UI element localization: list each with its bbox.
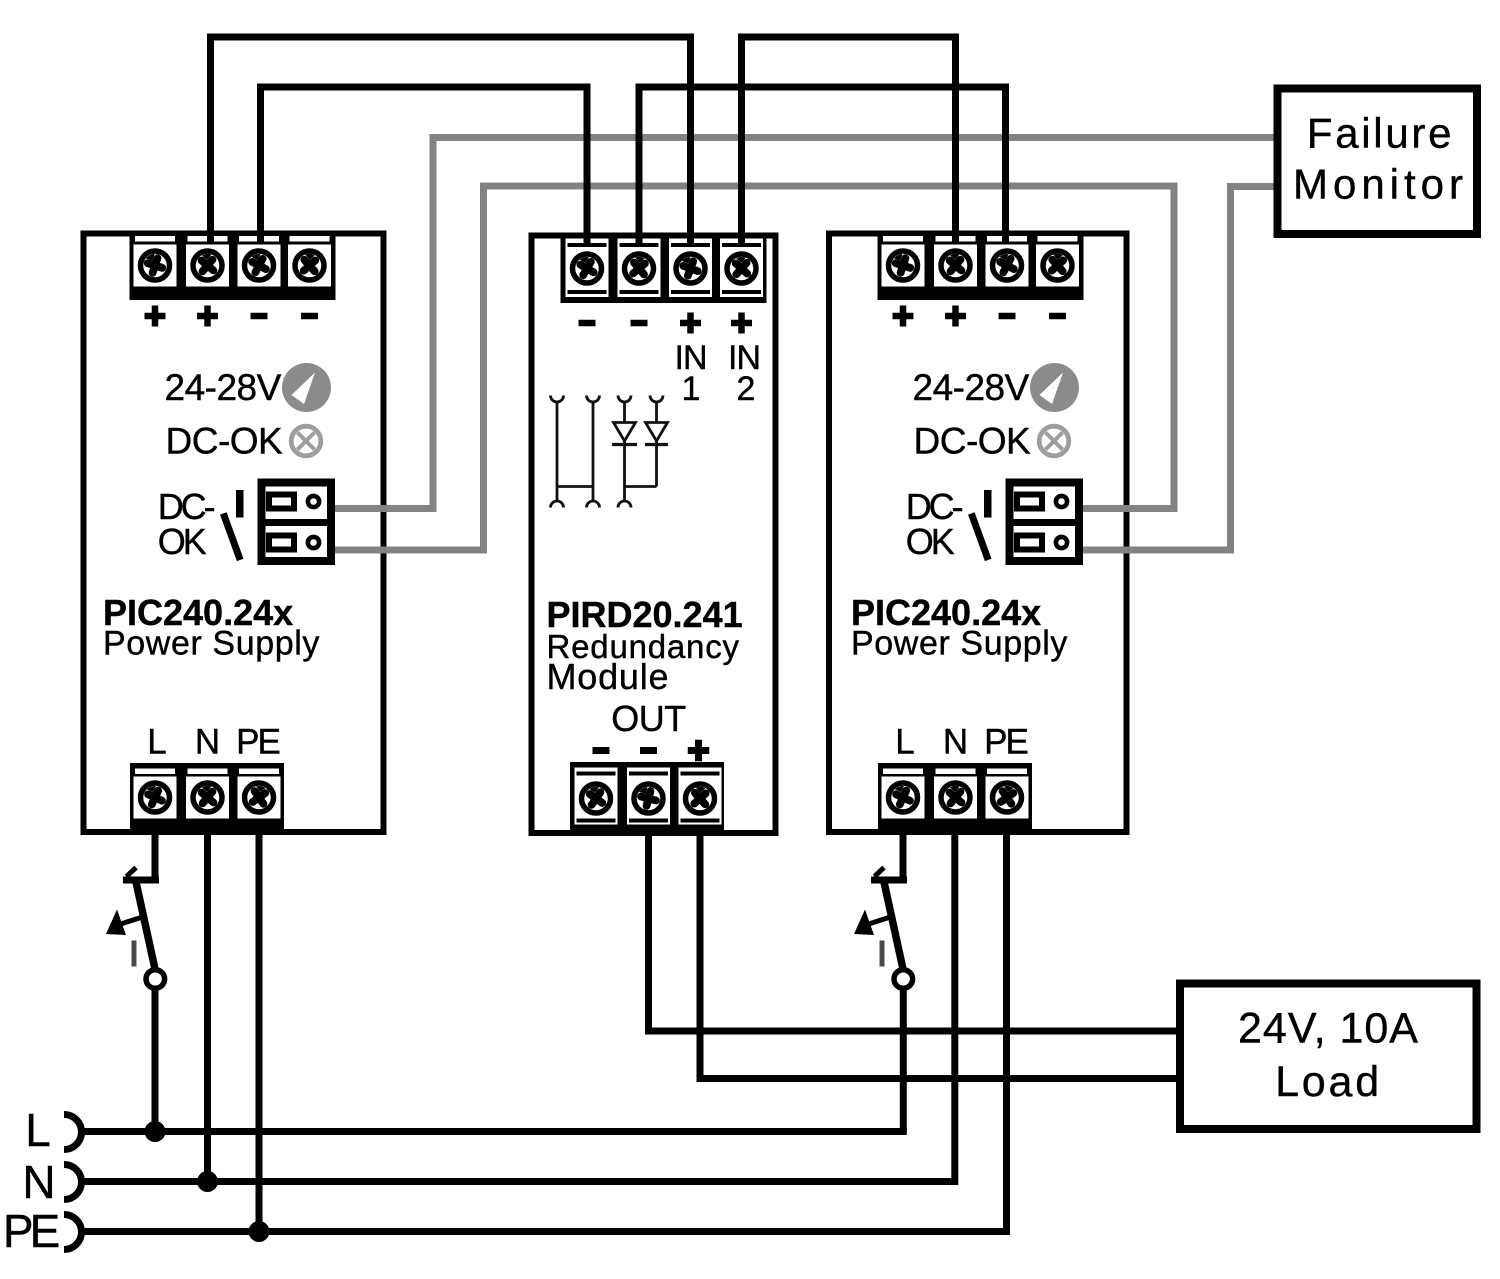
svg-text:PE: PE xyxy=(984,723,1027,762)
svg-text:OUT: OUT xyxy=(611,698,686,739)
power supply PS1 outline xyxy=(84,234,384,833)
PS1 DC-OK LED xyxy=(291,426,321,456)
Load box 24V 10A xyxy=(1180,984,1477,1130)
svg-text:DC-OK: DC-OK xyxy=(166,421,284,462)
wire: PS1 + terminal to RM IN1 + xyxy=(211,37,691,245)
PS1 bottom terminal block L N PE xyxy=(130,763,284,830)
svg-text:N: N xyxy=(22,1156,55,1208)
RM IN 1 label xyxy=(675,339,707,408)
RM OUT terminal block xyxy=(570,762,724,831)
wire: PS1 N terminal to N bus xyxy=(204,825,211,1182)
svg-text:L: L xyxy=(147,723,166,762)
L bus xyxy=(81,1128,907,1135)
svg-text:N: N xyxy=(195,723,218,762)
wire: breaker S1 to L bus xyxy=(152,989,159,1132)
svg-text:2: 2 xyxy=(737,370,756,408)
circuit breaker S2 contact bar xyxy=(871,868,907,884)
RM terminal polarity labels - - + + xyxy=(579,313,753,334)
circuit breaker S1 contact circle xyxy=(146,970,165,989)
svg-text:OK: OK xyxy=(906,521,955,562)
PS1 DC-OK relay contact symbol xyxy=(223,490,243,560)
PE bus xyxy=(82,825,1007,1232)
svg-text:OK: OK xyxy=(158,521,207,562)
wire: PS2 L terminal to breaker S2 xyxy=(900,825,907,877)
wire: PS1 PE terminal to PE bus xyxy=(256,825,263,1232)
wire: RM OUT + to Load xyxy=(700,825,1177,1079)
svg-text:Failure: Failure xyxy=(1307,110,1454,157)
input terminal PE xyxy=(3,1205,82,1257)
wire: RM IN2 + to PS2 + terminal xyxy=(742,37,956,245)
redundancy module RM outline xyxy=(532,236,776,834)
PS2 DC-OK contact label xyxy=(906,486,963,562)
PS2 DC-OK relay contact symbol xyxy=(971,490,991,560)
RM OUT polarity labels - - + xyxy=(593,740,710,762)
junction: S1 wire on L bus xyxy=(145,1121,166,1142)
RM internal diode OR-ing schematic xyxy=(551,396,669,508)
wire: RM OUT - to Load xyxy=(649,825,1177,1031)
junction: PS1 N wire on N bus xyxy=(197,1171,218,1192)
PS2 DC-OK LED xyxy=(1039,426,1069,456)
circuit breaker S1 blade xyxy=(136,882,155,969)
circuit breaker S1 I marking xyxy=(132,941,137,967)
signal wire: PS1 DC-OK pin2 to PS2 DC-OK pin1 xyxy=(335,186,1174,550)
signal wire: PS1 DC-OK pin1 to Failure Monitor xyxy=(335,138,1274,509)
svg-text:L: L xyxy=(25,1104,51,1156)
svg-text:24-28V: 24-28V xyxy=(913,367,1030,408)
svg-text:Power Supply: Power Supply xyxy=(103,625,320,663)
PS2 top terminal block xyxy=(878,231,1084,300)
circuit breaker S2 contact circle xyxy=(894,970,913,989)
wire: RM IN2 - to PS2 - terminal xyxy=(639,87,1006,245)
PS1 DC-OK contact label xyxy=(158,486,215,562)
PS2 L N PE labels xyxy=(895,723,1027,762)
input terminal N xyxy=(22,1156,81,1208)
circuit breaker S2 blade xyxy=(884,882,903,969)
PS2 terminal polarity labels + + - - xyxy=(893,306,1067,327)
circuit breaker S2 I marking xyxy=(880,941,885,967)
PS1 terminal polarity labels + + - - xyxy=(145,306,319,327)
svg-text:Load: Load xyxy=(1275,1058,1382,1106)
circuit breaker S1 contact bar xyxy=(123,868,159,884)
svg-text:PE: PE xyxy=(236,723,279,762)
svg-text:Module: Module xyxy=(547,656,670,697)
svg-text:1: 1 xyxy=(682,370,701,408)
PS2 bottom terminal block L N PE xyxy=(878,763,1032,830)
wire: breaker S2 to L bus xyxy=(900,989,907,1132)
svg-text:24-28V: 24-28V xyxy=(165,367,282,408)
circuit breaker S2 trip arrow xyxy=(854,910,892,936)
wire: PS1 - terminal to RM IN1 - xyxy=(261,87,588,245)
power supply PS2 outline xyxy=(829,234,1127,833)
signal wire: Failure Monitor to PS2 DC-OK pin2 xyxy=(1083,187,1274,551)
PS1 DC-OK terminal connector xyxy=(258,483,336,562)
svg-text:PE: PE xyxy=(3,1205,59,1257)
circuit breaker S1 trip arrow xyxy=(106,910,144,936)
input terminal L xyxy=(25,1104,81,1156)
wire: PS1 L terminal to breaker S1 xyxy=(152,825,159,877)
svg-text:24V, 10A: 24V, 10A xyxy=(1238,1005,1419,1053)
svg-text:Monitor: Monitor xyxy=(1293,161,1468,208)
RM IN 2 label xyxy=(728,339,760,408)
svg-text:Power Supply: Power Supply xyxy=(851,625,1068,663)
svg-text:L: L xyxy=(895,723,914,762)
N bus xyxy=(82,825,955,1182)
PS1 voltage adjust potentiometer xyxy=(282,363,331,412)
Failure Monitor box xyxy=(1278,89,1478,235)
PS1 top terminal block xyxy=(130,231,336,300)
RM top terminal block xyxy=(561,233,767,303)
junction: PS1 PE wire on PE bus xyxy=(249,1221,270,1242)
PS2 voltage adjust potentiometer xyxy=(1030,363,1079,412)
PS1 L N PE labels xyxy=(147,723,279,762)
svg-text:N: N xyxy=(943,723,966,762)
svg-text:DC-OK: DC-OK xyxy=(914,421,1032,462)
PS2 DC-OK terminal connector xyxy=(1006,483,1084,562)
